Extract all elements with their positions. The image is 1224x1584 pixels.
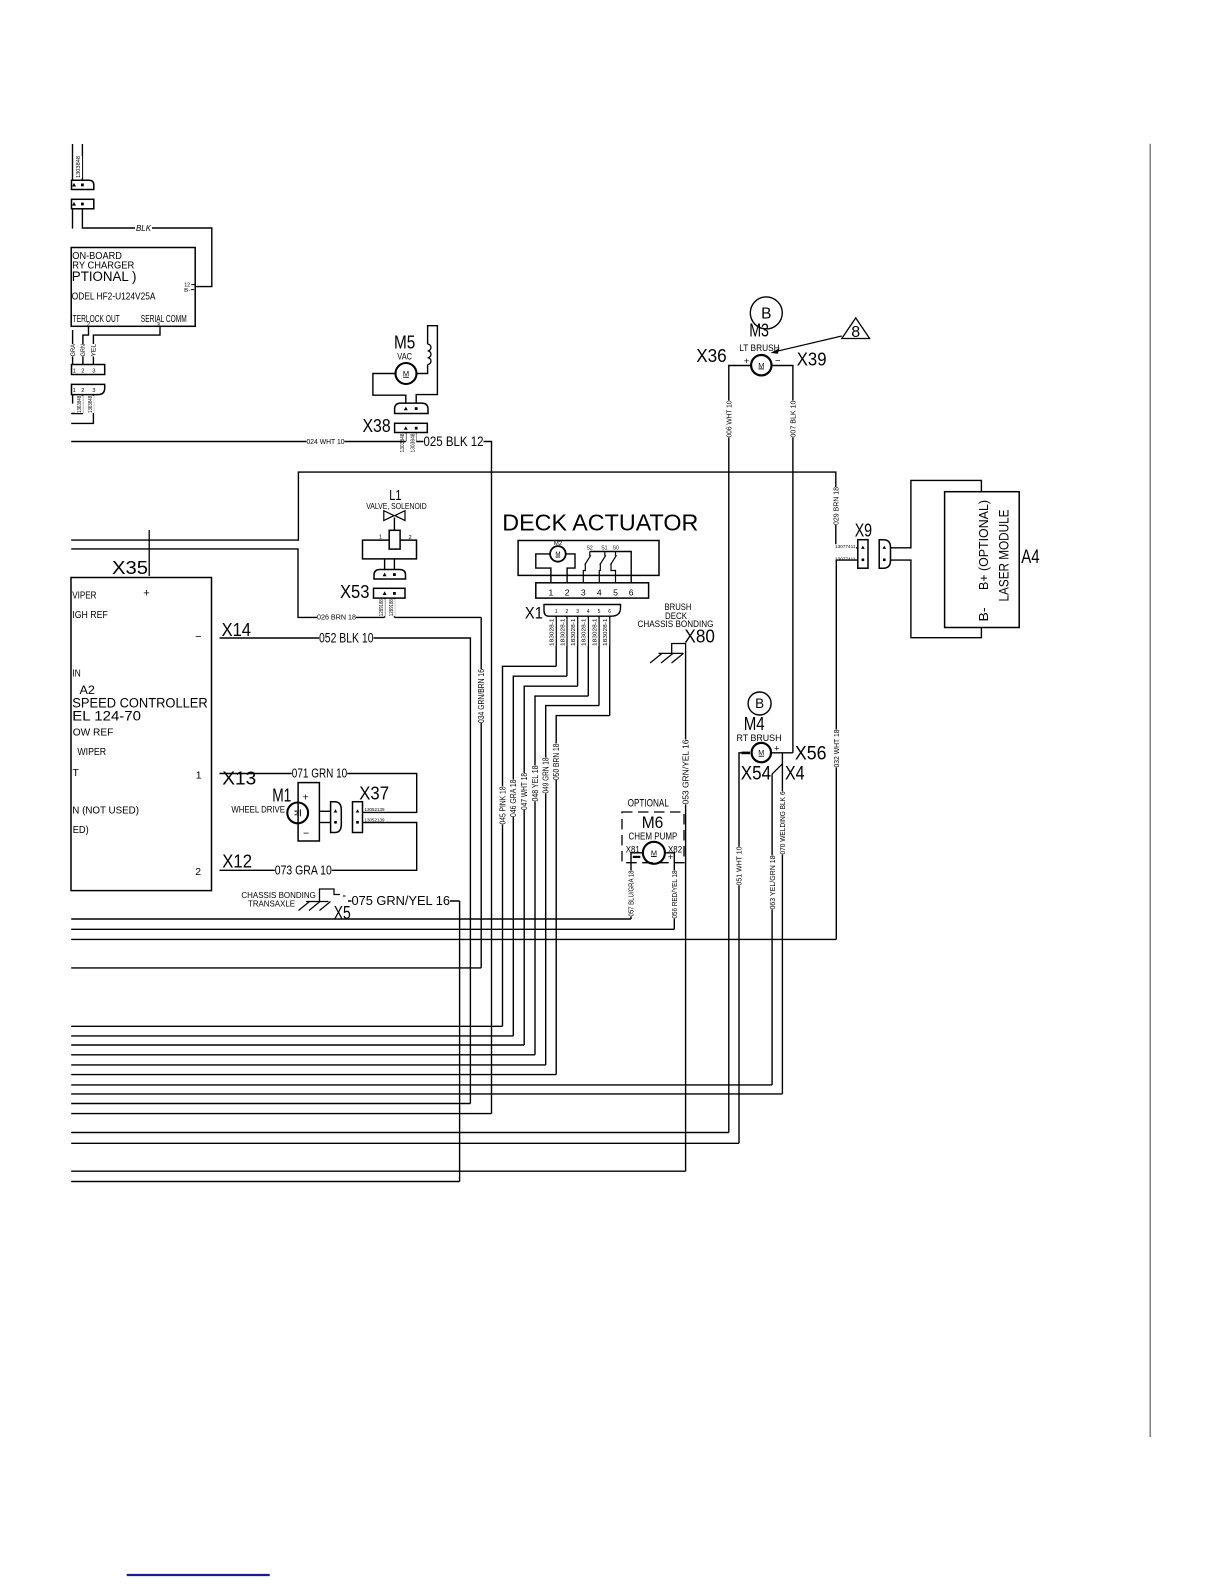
connector battery plug upper half — [72, 180, 94, 189]
svg-text:M3: M3 — [749, 320, 769, 341]
svg-text:046 GRA 18: 046 GRA 18 — [509, 779, 518, 817]
switch S0 — [615, 552, 617, 556]
svg-text:X38: X38 — [363, 416, 391, 436]
connector X9 component half (D-shape) — [879, 540, 890, 569]
svg-text:032 WHT 18: 032 WHT 18 — [832, 730, 841, 768]
valve symbol bowtie — [384, 511, 394, 521]
inductor coil of M5 — [428, 344, 431, 364]
wire battery positive lead (cut at page edge) — [72, 144, 74, 180]
battery symbol B circle above M3 — [750, 297, 782, 329]
bus wire to X1 pin1 (045 PINK 18) — [71, 1025, 502, 1027]
motor M2 bracket and pin wires — [536, 554, 551, 583]
hyperlink underline blue line — [127, 1574, 270, 1576]
connector X? 3-pin upper half — [72, 365, 105, 375]
svg-text:049 GRN 18: 049 GRN 18 — [542, 757, 551, 793]
motor M1 circle — [287, 803, 308, 824]
svg-text:CHEM PUMP: CHEM PUMP — [629, 831, 678, 842]
svg-text:3: 3 — [581, 587, 586, 597]
bus wire to X1 pin6 (050 BRN 18) — [71, 1074, 556, 1076]
svg-text:1: 1 — [73, 368, 76, 374]
wire pin1 stub below — [72, 395, 74, 404]
bus wire to X38 (025 BLK 12) — [71, 1113, 491, 1115]
svg-text:EL 124-70: EL 124-70 — [72, 709, 141, 724]
wire X35 upper line to X9 via top route — [71, 472, 858, 548]
wire label 048 YEL 18 — [531, 766, 539, 802]
wire part label 1303848 — [75, 396, 83, 413]
bus wire to X54 (051 WHT 10) — [71, 1142, 739, 1144]
wire X9 pin2 to 032 WHT vertical — [836, 560, 858, 939]
wire X53 pin b right segment — [394, 616, 481, 618]
svg-text:183028-1: 183028-1 — [603, 618, 609, 646]
svg-text:SERIAL COMM: SERIAL COMM — [141, 314, 187, 325]
svg-text:026 BRN 18: 026 BRN 18 — [317, 613, 356, 622]
wire X53 pin b stub — [393, 598, 395, 617]
wire part label 13052139 — [364, 807, 385, 811]
svg-text:2: 2 — [195, 867, 201, 878]
svg-text:X35: X35 — [112, 557, 148, 578]
svg-text:M1: M1 — [272, 785, 291, 806]
svg-text:1: 1 — [73, 388, 76, 394]
bus wire to M6 X81 (057) — [71, 918, 631, 920]
svg-text:VALVE, SOLENOID: VALVE, SOLENOID — [366, 501, 427, 511]
svg-text:007 BLK 10: 007 BLK 10 — [789, 401, 798, 438]
svg-text:071 GRN 10: 071 GRN 10 — [292, 766, 347, 781]
connector X37 harness half — [353, 802, 363, 833]
svg-text:+: + — [143, 587, 149, 599]
optional dashed box around M6 — [622, 812, 684, 863]
wire M4 plus to 007 BLK vertical — [771, 752, 793, 754]
bus wire to X1 pin5 (049 GRN 18) — [71, 1064, 546, 1066]
svg-text:VAC: VAC — [397, 351, 412, 361]
wire M1 terminal stubs — [319, 810, 330, 812]
svg-text:13077411: 13077411 — [835, 544, 856, 549]
wire label BLK — [135, 224, 152, 233]
svg-text:8: 8 — [851, 324, 860, 341]
ground hatch X5 — [306, 901, 329, 903]
wire label GRN — [79, 344, 87, 357]
wire pin3 to page edge — [71, 395, 93, 424]
bus wire to X1 pin3 (047 WHT 18) — [71, 1044, 524, 1046]
svg-text:1303848: 1303848 — [400, 433, 406, 452]
svg-text:X53: X53 — [340, 581, 370, 602]
connector X9 harness half — [858, 540, 868, 569]
svg-text:X1: X1 — [525, 604, 543, 623]
speed controller A2 box (cut at left edge) — [71, 578, 212, 891]
laser module A4 box — [945, 492, 1020, 628]
svg-text:IN: IN — [72, 669, 81, 680]
wire X38 pin b stub — [415, 433, 417, 442]
svg-text:VIPER: VIPER — [72, 591, 97, 602]
svg-text:TRANSAXLE: TRANSAXLE — [248, 898, 295, 908]
bus wire to X1 pin2 (046 GRA 18) — [71, 1035, 513, 1037]
bus wire to X14 (052 BLK 10) — [71, 1103, 470, 1105]
wire part label 1289188 — [377, 599, 385, 616]
on-board battery charger box A? (cut at left) — [71, 248, 195, 327]
svg-text:051 WHT 10: 051 WHT 10 — [735, 847, 744, 886]
switch rail wire — [590, 552, 631, 583]
svg-text:X14: X14 — [222, 619, 251, 640]
svg-text:1: 1 — [196, 771, 202, 782]
svg-text:M6: M6 — [642, 813, 664, 832]
svg-text:DECK ACTUATOR: DECK ACTUATOR — [502, 510, 698, 536]
svg-text:075 GRN/YEL 16: 075 GRN/YEL 16 — [352, 893, 451, 908]
connector X38 harness half — [395, 423, 428, 432]
wire M4 minus down (051 WHT 10) — [739, 753, 742, 1144]
svg-text:183028-1: 183028-1 — [560, 618, 566, 646]
svg-text:S2: S2 — [587, 546, 593, 552]
svg-text:GRN: GRN — [80, 344, 87, 357]
wire pin1 cut at edge — [72, 330, 74, 365]
svg-text:X12: X12 — [222, 851, 252, 872]
wire battery negative lead — [81, 144, 83, 180]
svg-text:LASER MODULE: LASER MODULE — [997, 510, 1012, 602]
wire X9 to laser module B+ — [891, 480, 982, 547]
wire 071 GRN 10 from X13 to X37 pin1 — [220, 774, 417, 813]
svg-text:IGH REF: IGH REF — [72, 610, 108, 621]
svg-text:045 PINK 18: 045 PINK 18 — [498, 786, 507, 824]
svg-text:13052139: 13052139 — [365, 807, 385, 812]
svg-text:A4: A4 — [1021, 547, 1040, 568]
bus wire to X1 pin4 (048 YEL 18) — [71, 1054, 535, 1056]
svg-text:T: T — [73, 768, 80, 779]
svg-text:X4: X4 — [785, 764, 805, 785]
staircase wires X1 to bus verticals — [503, 666, 557, 1026]
wire part label 13077411 pin2 — [835, 557, 857, 561]
wire label 049 GRN 18 — [542, 758, 550, 794]
svg-text:1: 1 — [555, 609, 558, 615]
switch S1 — [604, 552, 606, 556]
wire 025 BLK 12 from X38 pin b down to bus — [416, 442, 491, 1114]
wire part label 1289188 — [387, 599, 395, 616]
svg-text:063 YEL/GRN 18: 063 YEL/GRN 18 — [768, 856, 777, 910]
wire from coil over to plug pin b — [416, 326, 437, 403]
svg-text:1303848: 1303848 — [410, 433, 416, 452]
wire 075 GRN/YEL 16 from X5 to bus — [348, 900, 460, 902]
bus wire to M4 (070 WELDING BLK 6) — [71, 1093, 782, 1095]
svg-text:X36: X36 — [696, 345, 727, 366]
wire serial comm pin3 down — [93, 326, 160, 364]
svg-text:YEL: YEL — [91, 343, 98, 356]
svg-text:1289188: 1289188 — [389, 599, 395, 616]
wire label 029 BRN 18 on vertical — [832, 487, 840, 525]
bus wire to X4 (063 YEL/GRN 18) — [71, 1084, 772, 1086]
wire part label 13052139 — [364, 818, 385, 822]
bus wire to X36 (006 WHT 10) — [71, 1132, 729, 1134]
ground hatch X80 — [659, 652, 684, 654]
svg-text:S1: S1 — [601, 546, 607, 552]
svg-text:183028-1: 183028-1 — [571, 618, 577, 646]
svg-text:029 BRN 18: 029 BRN 18 — [832, 487, 841, 525]
battery symbol B circle above M4 — [748, 692, 771, 715]
note triangle 8 — [842, 318, 870, 339]
svg-text:ED): ED) — [73, 825, 89, 836]
svg-text:X80: X80 — [684, 626, 715, 647]
valve stem wire — [393, 518, 395, 531]
svg-text:B-: B- — [976, 608, 991, 622]
svg-text:1303848: 1303848 — [76, 156, 82, 178]
svg-text:X56: X56 — [795, 743, 827, 764]
motor M3 circle — [751, 355, 771, 375]
wire part label 1303848 — [74, 156, 82, 178]
svg-text:183028-1: 183028-1 — [550, 618, 556, 646]
wire X35 lower line to X53 (026 BRN) — [71, 549, 384, 618]
wire part label 13077411 pin1 — [835, 544, 857, 548]
wire X4 branch diagonal (063 YEL/GRN 18) — [772, 764, 782, 774]
bus wire to X9 (032 WHT 18) — [71, 938, 836, 940]
svg-text:3: 3 — [576, 609, 579, 615]
motor M5 circle — [396, 363, 417, 384]
svg-text:2: 2 — [566, 609, 569, 615]
svg-text:+: + — [303, 791, 309, 803]
svg-text:073 GRA 10: 073 GRA 10 — [275, 862, 332, 877]
svg-text:2: 2 — [81, 388, 84, 394]
connector battery plug lower half — [72, 199, 94, 209]
svg-text:X13: X13 — [222, 768, 256, 789]
svg-text:B+ (OPTIONAL): B+ (OPTIONAL) — [976, 500, 991, 590]
wire label 045 PINK 18 — [499, 787, 507, 825]
page boundary gray line — [1149, 144, 1151, 1437]
svg-text:052 BLK 10: 052 BLK 10 — [319, 630, 374, 645]
svg-text:4: 4 — [597, 587, 602, 597]
wire interlock out pin2 down — [83, 326, 89, 364]
wires X1 pins with part labels 183028-1 — [555, 616, 557, 666]
wire 034 GRN/BRN 16 from X53 line down to bus — [480, 617, 482, 968]
bus wire to X53 (034 GRN/BRN 16) — [71, 967, 481, 969]
svg-text:−: − — [195, 631, 201, 643]
svg-text:5: 5 — [613, 587, 618, 597]
M6 minus terminal mark — [633, 856, 641, 858]
svg-text:1: 1 — [379, 534, 382, 540]
svg-text:053 GRN/YEL 16: 053 GRN/YEL 16 — [681, 739, 690, 805]
svg-text:183028-1: 183028-1 — [592, 618, 598, 646]
svg-text:M5: M5 — [394, 333, 415, 353]
actuator pin bar 1-6 — [536, 583, 649, 598]
svg-text:025 BLK 12: 025 BLK 12 — [424, 434, 484, 449]
connector X1 harness half — [544, 605, 621, 617]
wire part label 1303848 — [409, 434, 417, 453]
svg-text:034 GRN/BRN 16: 034 GRN/BRN 16 — [477, 669, 486, 723]
svg-text:ITERLOCK OUT: ITERLOCK OUT — [71, 314, 120, 325]
wire label GRA — [69, 344, 77, 357]
svg-text:X37: X37 — [359, 783, 389, 804]
svg-text:M4: M4 — [744, 713, 765, 734]
svg-text:2: 2 — [81, 368, 84, 374]
wire label YEL — [90, 344, 98, 357]
svg-text:048 YEL 18: 048 YEL 18 — [531, 765, 540, 801]
wire X9 to laser module B- — [891, 560, 982, 638]
svg-text:B: B — [755, 696, 764, 711]
wire M3 minus to X39 vertical (007 BLK 10) — [771, 366, 793, 753]
bus wire to M6 X82 (056) — [71, 928, 674, 930]
connector M5 plug (component half) — [395, 403, 428, 413]
svg-text:−: − — [303, 827, 309, 839]
svg-text:070 WELDING BLK 6: 070 WELDING BLK 6 — [778, 792, 787, 855]
deck actuator box — [518, 541, 659, 576]
svg-text:N (NOT USED): N (NOT USED) — [72, 806, 139, 817]
connector X35 divider bar — [148, 530, 150, 576]
wire 070 WELDING BLK 6 branch down — [781, 753, 783, 1094]
wire L1 pin stubs to plug — [384, 559, 386, 570]
connector X? 3-pin lower half — [72, 384, 105, 394]
svg-text:+: + — [668, 852, 674, 863]
wire label 047 WHT 18 — [520, 773, 528, 810]
wire X38 pin a stub to 024 WHT line — [405, 433, 407, 442]
svg-text:1303848: 1303848 — [77, 396, 83, 413]
wire charger B+ lead cut at edge — [72, 209, 74, 229]
solenoid L1 body outline — [363, 540, 417, 559]
svg-text:OW REF: OW REF — [73, 728, 114, 739]
svg-text:GRA: GRA — [70, 343, 77, 356]
svg-text:024 WHT 10: 024 WHT 10 — [307, 437, 345, 446]
svg-text:3: 3 — [92, 368, 95, 374]
leader line from triangle 8 to M3 — [775, 336, 842, 352]
svg-text:B-: B- — [184, 288, 190, 294]
motor M2 circle — [550, 546, 566, 562]
wire pin2 to page edge — [71, 395, 82, 414]
svg-text:3: 3 — [92, 388, 95, 394]
switch S2 — [589, 552, 591, 556]
wire label 046 GRA 18 — [509, 780, 517, 818]
connector X53 harness half — [374, 588, 406, 598]
motor M1 terminal block — [298, 783, 319, 841]
bus wire to X5 (075 GRN/YEL 16) — [71, 1181, 459, 1183]
svg-text:X54: X54 — [741, 764, 772, 785]
svg-text:1: 1 — [549, 587, 554, 597]
connector M1 plug (component half, D-shape) — [331, 802, 342, 833]
motor M6 circle — [643, 842, 665, 864]
wire X82 to bus (056 RED/YEL 18) — [665, 853, 674, 930]
chassis bonding X5 bracket symbol — [320, 889, 341, 902]
M4 minus terminal — [742, 752, 751, 755]
wire label 050 BRN 18 — [552, 744, 560, 781]
svg-text:4: 4 — [587, 609, 590, 615]
svg-text:WHEEL DRIVE: WHEEL DRIVE — [231, 805, 285, 815]
wire part label 1303848 — [398, 434, 406, 453]
svg-text:X81: X81 — [626, 844, 640, 855]
svg-text:057 BLU/GRA 18: 057 BLU/GRA 18 — [627, 871, 636, 917]
motor M4 circle — [752, 743, 771, 762]
wire 024 WHT 10 from page edge to X38 — [71, 441, 406, 443]
svg-text:X5: X5 — [334, 903, 351, 923]
svg-text:1303848: 1303848 — [88, 396, 94, 413]
wire 053 GRN/YEL 16 from X80 to bus — [685, 652, 687, 1172]
svg-text:006 WHT 10: 006 WHT 10 — [725, 401, 734, 438]
svg-text:OPTIONAL: OPTIONAL — [628, 797, 669, 809]
svg-text:PTIONAL ): PTIONAL ) — [72, 269, 137, 284]
wire M3 plus to X36 vertical (006 WHT 10) — [729, 366, 752, 1133]
svg-text:183028-1: 183028-1 — [582, 618, 588, 646]
wire M5 left lead to plug pin a — [373, 374, 406, 404]
connector L1 plug (component half) — [374, 570, 406, 580]
wire 052 BLK 10 from X14 to bus — [220, 638, 471, 1104]
svg-text:13052139: 13052139 — [365, 817, 385, 822]
svg-text:056 RED/YEL 18: 056 RED/YEL 18 — [670, 871, 679, 919]
wire M5 right lead via inductor — [417, 365, 428, 374]
bus wire to X80 (053 GRN/YEL 16) — [71, 1170, 685, 1172]
wire label 026 BRN 18 — [317, 613, 356, 621]
wire 073 GRA 10 from X12 to X37 pin2 — [220, 823, 417, 871]
wire part label 1303848 — [86, 396, 94, 413]
svg-text:2: 2 — [565, 587, 570, 597]
svg-text:047 WHT 18: 047 WHT 18 — [520, 773, 529, 810]
svg-text:6: 6 — [608, 609, 611, 615]
solenoid L1 coil rectangle — [389, 530, 400, 549]
wire BLK from battery to charger B- — [82, 209, 211, 287]
svg-text:ODEL HF2-U124V25A: ODEL HF2-U124V25A — [72, 292, 156, 303]
svg-text:S0: S0 — [613, 546, 619, 552]
svg-text:050 BRN 18: 050 BRN 18 — [552, 743, 561, 780]
wire X81 to bus (057 BLU/GRA 18) — [631, 853, 643, 919]
svg-text:1289188: 1289188 — [379, 599, 385, 616]
svg-text:5: 5 — [598, 609, 601, 615]
svg-text:RT BRUSH: RT BRUSH — [737, 733, 782, 743]
chassis bonding X80 bracket symbol — [672, 644, 686, 654]
wire X53 pin a stub — [384, 598, 386, 617]
svg-text:X39: X39 — [797, 349, 827, 370]
svg-text:6: 6 — [629, 587, 634, 597]
svg-text:WIPER: WIPER — [77, 747, 106, 758]
svg-text:X9: X9 — [855, 520, 872, 541]
svg-text:2: 2 — [409, 535, 412, 541]
svg-text:BLK: BLK — [136, 224, 152, 233]
